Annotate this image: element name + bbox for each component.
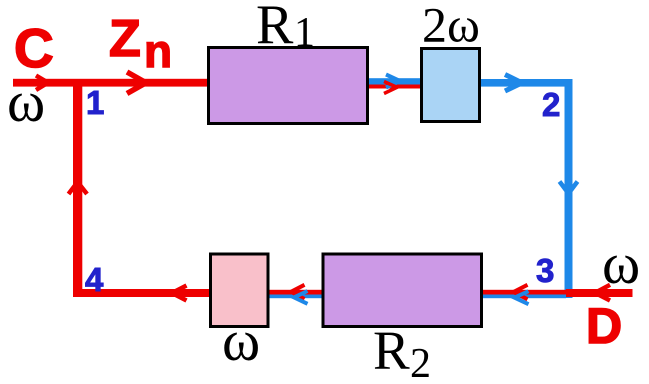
wire arrow small near C [36, 76, 48, 91]
wire red thin between R1 and 2w box [367, 85, 422, 89]
svg-text:3: 3 [536, 252, 554, 289]
wire arrow blue toward node 2 [505, 75, 522, 92]
svg-text:R: R [256, 0, 294, 56]
wire arrow blue left toward R2 [515, 291, 529, 304]
wire blue between R2 and pink box [267, 295, 324, 299]
source label omega top-left [7, 69, 45, 134]
svg-text:2: 2 [410, 341, 431, 384]
svg-text:ω: ω [7, 69, 45, 134]
inductor w value label below pink box [222, 308, 260, 373]
resistor R1 box [209, 48, 368, 124]
wire arrow blue right of R1 [386, 75, 400, 88]
wire blue right vertical node 2 to node 3 [565, 79, 573, 298]
node 4 label [85, 261, 104, 298]
wire arrow red near terminal D [595, 285, 610, 301]
source label omega right [602, 231, 640, 296]
wire red top from terminal C to R1 [13, 79, 210, 87]
wire red bottom-left from pink box to node 4 [73, 289, 211, 297]
svg-text:ω: ω [222, 308, 260, 373]
wire blue between node 3 and R2 [482, 295, 566, 299]
wire arrow blue down on right vertical [560, 182, 578, 194]
wire arrow blue between R2 and pink box [294, 291, 308, 304]
wire red between node 3 and R2 [482, 290, 566, 295]
terminal label C [14, 17, 54, 79]
svg-text:1: 1 [86, 84, 104, 121]
wire red between R2 and pink box [267, 290, 324, 295]
wire arrow up on left vertical [69, 182, 88, 194]
node 1 label [86, 84, 104, 121]
svg-text:n: n [144, 25, 172, 77]
node 3 label [536, 252, 554, 289]
wire arrow into R1 [127, 72, 146, 94]
svg-text:2: 2 [542, 86, 560, 123]
inductor w pink box [211, 254, 269, 327]
svg-text:4: 4 [85, 261, 104, 298]
wire arrow red right of R1 [384, 82, 397, 94]
node 2 label [542, 86, 560, 123]
svg-text:1: 1 [294, 10, 315, 56]
resistor R1 value label [256, 0, 315, 56]
resistor R2 value label [373, 320, 431, 384]
wire red left vertical node 1 to node 4 [73, 82, 82, 297]
svg-text:Z: Z [109, 10, 141, 68]
terminal label D [586, 298, 622, 354]
wire arrow red left toward R2 [514, 285, 528, 300]
wire arrow red between R2 and pink box [291, 285, 305, 299]
wire blue from 2w box to top-right corner [480, 79, 573, 87]
wire red bottom-right from terminal D to node 3 [566, 289, 633, 297]
inductor 2w box [422, 49, 480, 122]
svg-text:2ω: 2ω [422, 0, 480, 53]
svg-text:R: R [373, 320, 410, 381]
inductor 2w value label [422, 0, 480, 53]
wire blue between R1 and 2w box [366, 78, 422, 84]
impedance label Zn [109, 10, 172, 77]
svg-text:ω: ω [602, 231, 640, 296]
svg-text:D: D [586, 298, 622, 354]
wire arrow red toward node 4 [172, 286, 187, 301]
resistor R2 box [323, 254, 482, 327]
